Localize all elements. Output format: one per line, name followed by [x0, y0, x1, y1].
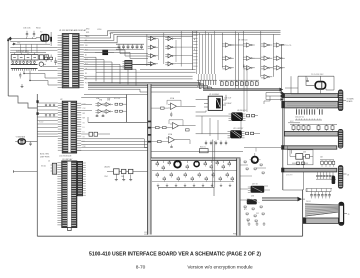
- svg-text:C52: C52: [256, 213, 259, 215]
- wire gate ladder verticals: [196, 31, 198, 74]
- wire U21A out: [177, 105, 196, 107]
- ground audio grounds: [115, 175, 117, 180]
- node A supply node dot: [7, 39, 9, 41]
- wire subgrid verticals: [146, 34, 148, 66]
- wire vertical bus VB1: [148, 84, 151, 234]
- svg-text:DISP PWR: DISP PWR: [40, 156, 50, 158]
- svg-text:CS2: CS2: [83, 108, 86, 110]
- svg-text:1: 1: [236, 84, 237, 86]
- wire gate grid top rails: [193, 30, 281, 32]
- wire stub y171: [14, 171, 38, 173]
- wire gate outputs right: [282, 44, 285, 46]
- svg-text:U2: U2: [60, 99, 62, 101]
- svg-text:U6 REG 5V: U6 REG 5V: [237, 110, 247, 112]
- svg-text:R54: R54: [105, 176, 108, 178]
- wire reg feeds: [196, 115, 229, 117]
- svg-text:Version w/o encryption module: Version w/o encryption module: [187, 264, 253, 270]
- capacitor C103: [171, 145, 173, 147]
- svg-text:B: B: [194, 49, 195, 51]
- resistor R93: [156, 127, 160, 129]
- wire reg vertical drops: [240, 121, 242, 130]
- svg-text:KR0: KR0: [86, 29, 89, 31]
- wire mid rows left ext: [96, 71, 196, 73]
- ic U2 lcd controller: [62, 101, 76, 153]
- wire y1 to bus: [290, 76, 292, 93]
- wire U2 left feeds: [37, 102, 58, 104]
- resistor R80 R81: [297, 162, 300, 164]
- wire main address bus: [88, 82, 202, 88]
- resistor R4: [50, 57, 53, 59]
- ic U20 comparator: [296, 154, 303, 160]
- crystal Y2 barrel: [41, 35, 49, 42]
- svg-text:P00: P00: [85, 59, 88, 61]
- ground cap bank grounds: [296, 119, 298, 121]
- wire bar1 feed arrows: [266, 92, 281, 94]
- svg-text:CLK OUT: CLK OUT: [224, 98, 231, 100]
- node A diamond: [9, 37, 12, 41]
- svg-text:1: 1: [241, 84, 242, 86]
- svg-text:LCD1: LCD1: [109, 33, 113, 35]
- transistor Q10: [39, 62, 43, 66]
- logic gate U12B: [247, 66, 251, 70]
- connector bus BAR5: [284, 168, 337, 172]
- svg-text:KR2: KR2: [86, 36, 89, 38]
- svg-text:LCD0: LCD0: [97, 29, 101, 31]
- wire grid long verticals: [235, 31, 237, 88]
- svg-text:8-70: 8-70: [136, 264, 146, 270]
- transistor Q6 TO-can: [252, 157, 258, 163]
- svg-text:C36 C35: C36 C35: [23, 28, 30, 30]
- ic U1 microcontroller: [62, 34, 79, 88]
- wire U21A feedback: [167, 100, 181, 106]
- wire vertical bus VB2: [237, 159, 240, 236]
- node staircase dots: [23, 73, 24, 74]
- svg-text:J1-14: J1-14: [144, 234, 148, 236]
- ic U6 regulator: [231, 112, 243, 121]
- wire staircase 1: [24, 71, 58, 78]
- capacitor C30 bank: [205, 141, 207, 143]
- svg-text:C60-C67 0.1: C60-C67 0.1: [295, 117, 304, 119]
- connector J4: [77, 161, 82, 195]
- wire rail y151: [151, 150, 243, 152]
- wire left inner border vertical: [36, 94, 38, 236]
- wire gate row links: [231, 44, 243, 46]
- svg-text:J9: J9: [348, 214, 350, 216]
- logic gate U4E: [151, 54, 155, 58]
- diode array D4-D10: [12, 62, 14, 64]
- connector bus BAR1: [285, 94, 339, 98]
- svg-text:KR1: KR1: [86, 32, 89, 34]
- resistor array RN2: [197, 74, 199, 80]
- svg-text:P17: P17: [85, 64, 88, 66]
- capacitor bank C10-C15: [116, 43, 144, 45]
- svg-text:D1: D1: [83, 132, 85, 134]
- svg-text:J8: J8: [347, 175, 349, 177]
- wire rail y41.5: [10, 41, 46, 43]
- svg-text:U17 5V: U17 5V: [252, 184, 259, 186]
- logic gate U4H: [168, 62, 172, 66]
- svg-text:R71: R71: [244, 209, 247, 211]
- logic gate U8D: [247, 56, 251, 60]
- svg-text:U18: U18: [251, 196, 254, 198]
- resistor R21 R22: [115, 103, 118, 105]
- svg-text:BOARD: BOARD: [347, 100, 354, 103]
- logic gate U10A: [264, 43, 268, 47]
- resistor R97: [158, 141, 162, 143]
- svg-text:P17: P17: [85, 83, 88, 85]
- resistor R33: [246, 132, 249, 134]
- resistor R3: [45, 57, 48, 59]
- ic U11 audio amp: [114, 169, 120, 174]
- capacitor row C90s: [219, 79, 259, 81]
- connector bus BAR3: [285, 131, 339, 136]
- capacitor C101: [170, 112, 172, 114]
- transistor Q2 TO-can: [194, 161, 199, 166]
- logic gate U4G: [151, 62, 155, 66]
- resistor R95: [186, 129, 190, 131]
- op-amp U22A: [169, 137, 175, 144]
- wire J3 upper feeds: [37, 131, 58, 133]
- svg-text:5100-410 USER INTERFACE BOARD: 5100-410 USER INTERFACE BOARD VER A SCHE…: [89, 251, 261, 257]
- svg-text:2 4 6 8: 2 4 6 8: [306, 201, 311, 203]
- svg-text:U8 74HC00: U8 74HC00: [238, 40, 247, 42]
- resistor array RN6: [320, 159, 334, 161]
- svg-text:1: 1: [246, 84, 247, 86]
- wire col drops: [20, 44, 22, 52]
- capacitor bank C80s: [306, 191, 331, 193]
- wire bus branch lower: [88, 89, 180, 92]
- wire under-crystal rails: [43, 66, 58, 68]
- wire subgrid row outs: [175, 38, 181, 40]
- resistor R40: [200, 149, 209, 153]
- wire bar4 link: [244, 147, 281, 149]
- ic U9 inverter gates: [98, 103, 102, 107]
- resistor network RN1: [10, 52, 46, 54]
- wire U2 bottom fan: [81, 139, 147, 142]
- capacitor C7: [54, 60, 57, 62]
- svg-text:1: 1: [226, 84, 227, 86]
- wire crystal leads: [36, 37, 41, 39]
- svg-text:AUDIO: AUDIO: [105, 166, 111, 169]
- resistor R91: [161, 107, 165, 109]
- ground analog grounds: [157, 184, 159, 186]
- wire U20 out vertical: [303, 156, 305, 190]
- connector J8: [338, 166, 342, 189]
- svg-text:R21 10K: R21 10K: [114, 98, 121, 100]
- capacitor C47: [30, 142, 32, 144]
- svg-text:D1: D1: [83, 127, 85, 129]
- connector J3: [62, 161, 77, 228]
- diode D20 dark: [50, 37, 52, 42]
- connector J2 small: [103, 50, 108, 55]
- svg-text:1: 1: [256, 84, 257, 86]
- wire U1 right mid fan: [84, 48, 148, 54]
- label U7 left pin stubs: [193, 31, 197, 33]
- wire fan feeds: [306, 189, 308, 192]
- svg-text:TO MAIN: TO MAIN: [347, 98, 355, 101]
- logic gate U12A: [226, 66, 230, 70]
- ic U5 oscillator: [208, 96, 222, 110]
- wire U21B feedback: [169, 120, 183, 126]
- wire cluster links: [240, 164, 248, 166]
- svg-text:1 3 5 7 9: 1 3 5 7 9: [286, 175, 292, 177]
- wire left border vertical: [7, 38, 9, 96]
- logic gate U8A: [226, 43, 230, 47]
- svg-text:U20: U20: [303, 152, 306, 154]
- wire U1 to gate bus: [84, 31, 193, 36]
- svg-text:1: 1: [231, 84, 232, 86]
- svg-text:1: 1: [221, 84, 222, 86]
- wire Y1 leads: [306, 76, 315, 85]
- op-amp U21A: [171, 103, 177, 110]
- transistor Q1 TO-can: [174, 161, 181, 168]
- logic gate U13A: [264, 75, 268, 79]
- logic gate U10D: [277, 56, 281, 60]
- svg-text:R60 R61 R62 10K: R60 R61 R62 10K: [197, 87, 211, 89]
- capacitor bank C70s: [317, 172, 319, 175]
- wire gate grid verticals: [221, 33, 223, 68]
- wire analog rail2: [152, 170, 237, 172]
- logic gate U12D: [277, 66, 281, 70]
- wire bar2 drops: [296, 108, 298, 109]
- svg-text:Y1 CLOCK OSC: Y1 CLOCK OSC: [311, 74, 324, 76]
- resistor array RN5: [290, 123, 337, 125]
- wire diode rail 2: [11, 67, 38, 69]
- wire staircase 2: [30, 71, 58, 85]
- label J6: [343, 100, 346, 102]
- ground ground-symbol left: [21, 84, 23, 87]
- connector bus BAR2: [285, 101, 339, 108]
- resistor cluster R70s: [244, 161, 246, 163]
- svg-text:U15 LM2937: U15 LM2937: [233, 128, 243, 130]
- ic U17 dark: [251, 186, 265, 193]
- wire rail y47.5: [10, 47, 57, 49]
- svg-text:J3 DISPLAY: J3 DISPLAY: [62, 158, 73, 161]
- capacitor C17: [19, 74, 21, 76]
- wire gates to x126: [122, 103, 126, 105]
- connector pin ticks: [11, 68, 13, 70]
- connector J10 mini: [125, 60, 132, 69]
- svg-text:J5: J5: [48, 161, 50, 163]
- svg-text:R40 0.5: R40 0.5: [200, 147, 206, 149]
- wire gate grid left edge: [192, 31, 194, 70]
- wire left border staircase: [8, 96, 37, 108]
- wire rail y122: [88, 121, 148, 123]
- svg-text:U1 5X8 KEYPAD AND DISPLAY: U1 5X8 KEYPAD AND DISPLAY: [59, 29, 87, 32]
- wire outline step mid: [159, 187, 215, 196]
- wire rail y50: [10, 49, 57, 51]
- connector J9: [339, 202, 344, 225]
- logic gate U4B: [168, 37, 172, 41]
- svg-text:Y2: Y2: [40, 32, 42, 34]
- wire U2 right top: [81, 97, 126, 99]
- resistor R31: [247, 115, 250, 117]
- crystal Y1 metal can: [315, 82, 325, 89]
- logic gate U10B: [277, 43, 281, 47]
- wire U21B out: [179, 125, 196, 127]
- transistor arrow mark: [13, 43, 16, 46]
- wire rail y38.5: [10, 38, 36, 40]
- svg-text:LCD MODULE: LCD MODULE: [59, 156, 72, 158]
- wire mid gray rail: [151, 158, 241, 161]
- svg-text:1: 1: [251, 84, 252, 86]
- logic gate U4F: [168, 54, 172, 58]
- logic gate U4C: [151, 45, 155, 49]
- svg-text:U5 16.8MHZ: U5 16.8MHZ: [209, 94, 220, 96]
- ic U18 dark: [247, 199, 257, 204]
- connector bus BAR6: [306, 218, 339, 223]
- node VB1 taps: [148, 121, 151, 123]
- svg-text:Y3 MURATA: Y3 MURATA: [16, 135, 26, 138]
- connector J6: [338, 90, 342, 111]
- ground cluster grounds: [248, 222, 250, 224]
- node feed blobs: [36, 100, 38, 103]
- transistor Q5 dark: [332, 176, 336, 184]
- logic gate U8C: [226, 56, 230, 60]
- resistor cluster R41-R62: [156, 163, 159, 165]
- wire reg down pair: [212, 140, 214, 188]
- wire bus extra rows: [84, 75, 193, 77]
- wire vertical x126: [126, 95, 128, 123]
- ic U15 regulator: [230, 130, 242, 138]
- capacitor C20 C21: [96, 114, 98, 116]
- capacitor bank C60s: [296, 109, 298, 114]
- wire cluster to right gray: [262, 198, 298, 200]
- capacitor C35: [33, 31, 35, 34]
- logic gate U10C: [264, 56, 268, 60]
- node bus end arrows: [280, 88, 284, 92]
- wire U22A out: [175, 140, 191, 144]
- wire fan gray: [305, 204, 338, 216]
- wire rail y44: [12, 43, 50, 45]
- svg-text:TP2: TP2: [17, 42, 20, 44]
- wire osc feeds: [196, 99, 204, 101]
- wire analog stubs: [157, 161, 159, 164]
- svg-text:R150: R150: [36, 28, 41, 30]
- wire U20 box outline: [288, 150, 314, 165]
- svg-text:TO LCD: TO LCD: [285, 45, 292, 47]
- logic gate U4D: [168, 45, 172, 49]
- capacitor C50: [307, 78, 309, 81]
- svg-text:BLKLT EN: BLKLT EN: [40, 154, 49, 156]
- svg-text:16.8 MHZ: 16.8 MHZ: [224, 103, 231, 105]
- resistor R26 row: [89, 132, 93, 136]
- capacitor C36: [26, 31, 28, 34]
- wire diode rail 1: [11, 64, 38, 66]
- wire right spine: [282, 94, 284, 190]
- logic gate U8B: [247, 43, 251, 47]
- wire right lower border vertical: [302, 190, 304, 237]
- logic gate U12C: [264, 66, 268, 70]
- connector J7: [338, 129, 342, 148]
- wire U1 right lower fan: [84, 57, 96, 81]
- wire bottom border: [37, 235, 302, 237]
- op-amp U21B: [173, 123, 179, 130]
- logic gate U4A: [151, 37, 155, 41]
- svg-text:RS: RS: [85, 73, 87, 75]
- connector J5 small: [52, 163, 56, 174]
- crystal Y3 resonator: [18, 139, 25, 144]
- svg-text:VLCD: VLCD: [41, 166, 47, 168]
- connector bus BAR4: [284, 146, 337, 149]
